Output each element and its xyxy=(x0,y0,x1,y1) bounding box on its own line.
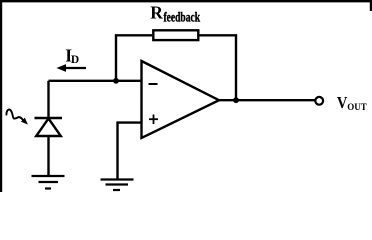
svg-text:R: R xyxy=(150,3,163,23)
svg-text:OUT: OUT xyxy=(347,102,367,113)
svg-text:D: D xyxy=(71,54,79,66)
svg-text:feedback: feedback xyxy=(164,11,201,26)
